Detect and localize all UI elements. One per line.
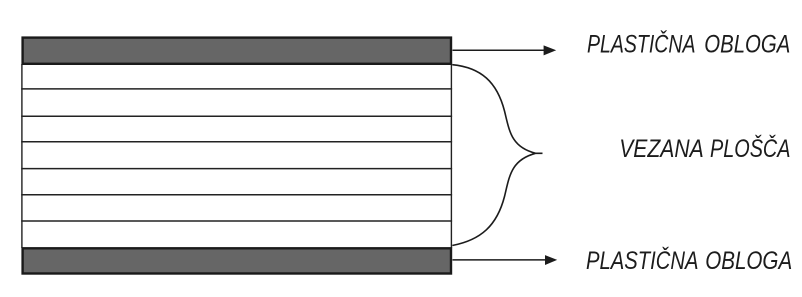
svg-text:OBLOGA: OBLOGA — [704, 31, 790, 58]
svg-text:PLASTIČNA: PLASTIČNA — [587, 30, 696, 58]
svg-text:VEZANA: VEZANA — [619, 136, 704, 163]
svg-text:PLOŠČA: PLOŠČA — [710, 135, 791, 163]
svg-text:OBLOGA: OBLOGA — [705, 248, 792, 275]
svg-text:PLASTIČNA: PLASTIČNA — [586, 247, 699, 275]
